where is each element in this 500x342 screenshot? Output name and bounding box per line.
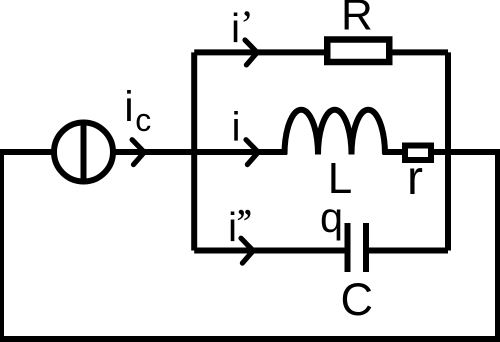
wire bottom branch right: [369, 248, 448, 254]
wire outer loop left-bottom-right: [1, 149, 498, 339]
inductor L coil: [285, 110, 386, 155]
arrow i-prime top: [245, 40, 257, 65]
wire node A to inductor: [195, 149, 287, 155]
svg-text:ic: ic: [124, 84, 151, 138]
svg-text:i: i: [232, 104, 241, 150]
svg-text:q: q: [320, 194, 343, 241]
resistor r body: [405, 146, 431, 161]
arrow i-doubleprime bottom: [241, 238, 253, 263]
node A branch bus vertical: [191, 52, 197, 250]
wire top branch left: [194, 49, 327, 55]
capacitor C right plate: [363, 223, 369, 272]
arrow i_c: [132, 140, 144, 165]
svg-text:’: ’: [240, 2, 254, 48]
arrow i middle: [246, 140, 258, 165]
svg-text:C: C: [341, 274, 374, 325]
resistor R body: [327, 40, 389, 63]
wire resistor r to outer right: [431, 149, 498, 155]
right branch bus vertical: [445, 52, 451, 250]
svg-text:’: ’: [241, 200, 255, 246]
wire top branch right: [389, 49, 448, 55]
current source I1 circle: [54, 123, 113, 182]
wire current source to node A: [113, 149, 195, 155]
svg-text:R: R: [341, 0, 373, 40]
wire inductor to resistor r: [383, 149, 405, 155]
wire bottom branch left: [194, 248, 345, 254]
current source I1 bar: [81, 122, 87, 183]
svg-text:r: r: [407, 152, 423, 205]
wire left lead to current source: [0, 149, 54, 155]
svg-text:i: i: [231, 5, 240, 51]
capacitor C left plate: [345, 223, 351, 272]
